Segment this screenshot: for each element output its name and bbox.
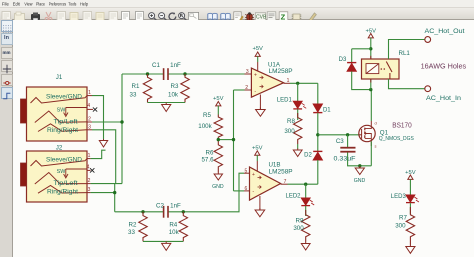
U1A pin 1 output (284, 78, 290, 84)
svg-text:3: 3 (88, 187, 91, 193)
svg-text:LM258P: LM258P (269, 168, 293, 175)
resistor R1 (143, 74, 151, 103)
J1 tip contact (35, 111, 87, 123)
svg-text:Tip/Left: Tip/Left (54, 120, 78, 126)
resistor R6 (214, 140, 222, 172)
svg-text:-: - (252, 189, 254, 195)
svg-text:C3: C3 (336, 138, 344, 145)
svg-text:LED1: LED1 (277, 98, 293, 104)
power +5V above RL1 (366, 29, 377, 49)
U1B ground pin (259, 196, 261, 210)
J1 ring contact (38, 124, 87, 132)
junction ground tap (358, 164, 361, 167)
power +5V above R5 (213, 96, 224, 114)
left toolbar (0, 19, 13, 257)
J2 tip contact (35, 173, 87, 185)
ground U1B (255, 208, 265, 217)
ground U1A (256, 108, 266, 117)
J1 pin 1 (87, 90, 92, 96)
resistor R7 (406, 207, 414, 245)
wire R1 R3 bottoms (148, 102, 186, 104)
svg-text:2: 2 (88, 117, 91, 123)
svg-text:D1: D1 (323, 107, 331, 113)
svg-text:57.6: 57.6 (201, 156, 214, 163)
svg-text:GND: GND (212, 184, 224, 190)
diode D3 (347, 63, 356, 72)
svg-text:R8: R8 (287, 118, 295, 125)
ground R9 (301, 242, 310, 251)
svg-text:+: + (254, 73, 257, 79)
junction C3 tap (346, 133, 349, 136)
svg-text:Ring/Right: Ring/Right (47, 190, 78, 196)
svg-text:Sleeve/GND: Sleeve/GND (46, 95, 83, 101)
U1A ground pin 4 (259, 95, 261, 110)
junction R1 top (146, 72, 149, 75)
wire C2 net to U1B pin5 (168, 173, 244, 212)
U1B pin 7 output (281, 179, 288, 185)
wire divider tap (218, 139, 233, 141)
node AC_Hot_In (425, 86, 431, 92)
LED LED1 (293, 101, 306, 109)
svg-text:1nF: 1nF (170, 202, 181, 209)
wire U1B output (288, 183, 318, 185)
wire coil to drain net (370, 79, 372, 90)
wire Q1 source down (370, 141, 372, 165)
U1B power pin (256, 161, 258, 171)
wire D3 top rail (352, 48, 371, 50)
RL1 coil pins (370, 56, 372, 83)
wire to D3 cathode (351, 49, 353, 63)
connector J1 (27, 87, 88, 141)
junction divider vertical (232, 138, 235, 141)
junction R3 top (183, 72, 186, 75)
wire J2 pin3 (91, 192, 115, 194)
menu bar (0, 0, 474, 8)
Q1 source pin (371, 141, 376, 148)
junction LED1 branch (296, 82, 299, 85)
svg-text:View: View (24, 1, 33, 6)
svg-text:Place: Place (36, 1, 45, 6)
svg-text:1: 1 (287, 78, 290, 84)
svg-text:R5: R5 (203, 112, 211, 119)
ground R7 (406, 245, 415, 254)
wire J1 pin2 to C1 net (92, 121, 122, 123)
svg-text:6: 6 (245, 186, 248, 192)
svg-text:2: 2 (88, 178, 91, 184)
ground Q1 source (355, 166, 364, 175)
svg-text:1nF: 1nF (170, 62, 181, 69)
ground jack sleeves (99, 139, 107, 147)
svg-text:SW: SW (57, 169, 67, 175)
J1 sleeve opening (21, 99, 27, 123)
svg-text:D2: D2 (304, 152, 312, 158)
junction J1 pin2 / C1 net (120, 120, 123, 123)
svg-text:R7: R7 (399, 214, 407, 221)
resistor R4 (179, 212, 187, 242)
svg-text:AC_Hot_In: AC_Hot_In (426, 96, 461, 102)
svg-text:SW: SW (57, 107, 67, 113)
wire to D1 (317, 83, 319, 104)
wire D3 anode rail (352, 71, 371, 89)
relay RL1 (362, 59, 400, 79)
svg-text:AC_Hot_Out: AC_Hot_Out (425, 29, 465, 35)
U1B pin 6 (244, 186, 250, 192)
svg-text:100k: 100k (198, 123, 212, 130)
Q1 drain pin (371, 121, 376, 126)
svg-text:R9: R9 (296, 217, 304, 224)
wire vertical C1 net (121, 74, 123, 184)
J2 pin 4 no-connect (87, 164, 95, 172)
wire J2 pin2 join (91, 183, 122, 185)
svg-text:2: 2 (245, 85, 248, 91)
svg-text:R3: R3 (171, 83, 179, 90)
resistor R3 (181, 74, 189, 103)
junction R2 top (141, 210, 144, 213)
svg-text:1: 1 (88, 90, 91, 96)
svg-text:4: 4 (87, 164, 90, 170)
wire R8 to ground (297, 144, 299, 149)
J1 pin 4 no-connect (87, 103, 97, 112)
ground R6 (214, 172, 222, 180)
svg-text:Q_NMOS_DGS: Q_NMOS_DGS (379, 136, 414, 142)
wire C1 net left (122, 73, 163, 75)
U1A pin 3 (245, 69, 252, 75)
wire divider to op-amp inputs (233, 90, 235, 191)
wire J2 pin1 to ground (91, 150, 106, 158)
wire LED3 to R7 (409, 203, 411, 214)
junction R5 R6 (217, 138, 220, 141)
U1A power pin 8 (257, 62, 259, 71)
svg-text:300: 300 (395, 222, 406, 229)
svg-text:C1: C1 (152, 62, 160, 69)
op-amp U1A (251, 68, 283, 97)
svg-text:R6: R6 (206, 149, 214, 156)
svg-text:GND: GND (354, 178, 366, 184)
svg-text:R4: R4 (169, 221, 177, 228)
svg-text:3: 3 (88, 124, 91, 130)
wire to U1A pin2 (234, 89, 245, 91)
svg-text:10k: 10k (168, 92, 179, 99)
ground C2 network (162, 241, 171, 250)
wire U1A output (290, 82, 318, 84)
power +5V above LED3 (405, 170, 416, 195)
svg-text:10k: 10k (169, 229, 180, 236)
connector J2 (27, 151, 88, 202)
capacitor C2 (164, 206, 168, 218)
J2 pin 1 (87, 153, 91, 159)
J2 sleeve contact (31, 159, 88, 166)
junction J2 pin3 net (113, 191, 116, 194)
svg-text:D3: D3 (339, 57, 347, 63)
svg-text:7: 7 (284, 179, 287, 185)
wire +5V to coil (370, 49, 372, 59)
wire D2 to U1B output (317, 160, 319, 184)
wire D1 to D2 (317, 113, 319, 152)
J2 ring contact (38, 186, 87, 194)
transistor Q1 (359, 125, 375, 141)
wire relay to AC_Hot_In (389, 79, 425, 89)
ground C1 network (162, 103, 171, 112)
wire C3 bottom rail (348, 153, 372, 166)
svg-text:300: 300 (293, 225, 304, 232)
svg-text:16AWG Holes: 16AWG Holes (421, 62, 467, 71)
junction D3 top (369, 47, 372, 50)
J1 pin 2 (87, 117, 92, 123)
power +5V above U1B (252, 145, 263, 161)
svg-text:Preferences: Preferences (49, 1, 67, 6)
svg-text:Edit: Edit (13, 1, 21, 6)
J2 sleeve opening (21, 163, 27, 186)
svg-text:RL1: RL1 (399, 50, 411, 57)
wire LED1 to R8 (297, 109, 299, 120)
svg-text:R2: R2 (129, 221, 137, 228)
svg-text:Tools: Tools (68, 1, 77, 6)
J2 pin 3 (87, 187, 91, 193)
svg-text:4: 4 (87, 103, 90, 109)
capacitor C1 (164, 68, 168, 80)
wire R2 R4 bottoms (143, 240, 183, 242)
svg-text:BS170: BS170 (392, 122, 412, 129)
junction gate net (316, 133, 319, 136)
svg-text:300: 300 (284, 128, 295, 135)
svg-text:33: 33 (128, 229, 135, 236)
wire to U1B pin6 (234, 190, 245, 192)
U1B pin 5 (244, 168, 250, 174)
junction D3 bottom (369, 88, 372, 91)
diode D1 (313, 104, 322, 113)
wire relay to AC_Hot_Out (389, 40, 425, 60)
RL1 switch pins (388, 56, 390, 83)
svg-text:LM258P: LM258P (269, 68, 293, 75)
svg-text:Sleeve/GND: Sleeve/GND (46, 158, 83, 164)
J2 pin 2 (87, 178, 91, 184)
node AC_Hot_Out (425, 37, 431, 43)
LED LED2 (301, 198, 314, 206)
svg-text:File: File (2, 1, 10, 6)
svg-text:LED3: LED3 (391, 194, 407, 200)
resistor R8 (294, 113, 302, 144)
svg-text:Help: Help (80, 1, 88, 6)
svg-text:s: s (375, 144, 377, 149)
wire to C3 top (347, 135, 349, 147)
svg-text:J1: J1 (56, 74, 63, 81)
wire Q1 drain to relay (370, 90, 372, 121)
wire J1 pin1 to ground (92, 96, 104, 139)
svg-text:LED2: LED2 (285, 193, 301, 199)
wire C2 net left (115, 211, 164, 213)
J1 sleeve contact (31, 96, 88, 103)
resistor R2 (139, 212, 147, 242)
wire gate net (318, 134, 359, 136)
svg-text:d: d (375, 121, 377, 126)
wire to LED2 (305, 184, 307, 198)
wire C1 net to U1A pin3 (168, 73, 244, 75)
svg-text:R1: R1 (132, 83, 140, 90)
svg-text:J2: J2 (56, 145, 63, 152)
resistor R5 (214, 115, 222, 140)
wire to LED1 (297, 83, 299, 101)
svg-text:0.33uF: 0.33uF (334, 155, 356, 162)
svg-text:Ring/Right: Ring/Right (47, 128, 78, 134)
diode D2 (313, 151, 322, 160)
toolbar (0, 8, 474, 20)
svg-text:1: 1 (88, 153, 91, 159)
svg-text:C2: C2 (156, 202, 164, 209)
capacitor C3 (340, 148, 355, 152)
wire J2 pin3 to C2 net (114, 184, 116, 212)
svg-text:3: 3 (246, 69, 249, 75)
power +5V above U1A (252, 46, 263, 62)
svg-text:+: + (252, 172, 255, 178)
resistor R9 (302, 210, 310, 242)
svg-text:-: - (254, 88, 256, 94)
svg-text:Tip/Left: Tip/Left (54, 181, 78, 187)
svg-text:5: 5 (245, 168, 248, 174)
ground R8 (293, 148, 302, 157)
junction R4 top (182, 210, 185, 213)
LED LED3 (406, 195, 419, 203)
J1 pin 3 (87, 124, 92, 130)
wire LED2 to R9 (305, 206, 307, 216)
wire J1 pin3 down (92, 130, 116, 184)
Q1 gate pin (359, 134, 361, 136)
U1A pin 2 (245, 85, 252, 91)
op-amp U1B (250, 167, 281, 200)
junction LED2 branch (304, 183, 307, 186)
svg-text:33: 33 (130, 92, 137, 99)
